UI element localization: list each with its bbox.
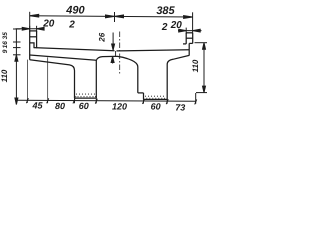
void crown left shoulder xyxy=(96,56,114,60)
extension x96.3 xyxy=(95,98,97,103)
right curb step xyxy=(189,42,193,44)
top dimension line 490/385 xyxy=(30,16,193,17)
left 20 dim line xyxy=(16,28,44,30)
left curb notch line xyxy=(30,43,34,48)
svg-text:35: 35 xyxy=(2,32,9,40)
svg-text:20: 20 xyxy=(42,18,55,29)
tick y54.8 xyxy=(13,54,21,56)
right 20 arrow a xyxy=(179,29,187,32)
extension x47.7 from soffit xyxy=(47,57,49,103)
left 20 arrow b xyxy=(37,27,45,30)
svg-text:60: 60 xyxy=(79,101,89,111)
mortar dots rib A xyxy=(75,94,96,98)
left 20 tick b xyxy=(36,26,38,32)
chain tick x143.5 xyxy=(143,99,145,104)
left 110 top arrow xyxy=(15,55,18,62)
svg-text:26: 26 xyxy=(97,32,106,42)
STRUCTURE xyxy=(30,31,193,100)
block B right face xyxy=(166,65,168,100)
left curb inner face xyxy=(36,31,38,48)
joint vertical xyxy=(115,51,117,56)
tick y42 xyxy=(13,41,21,43)
extension right end 385 xyxy=(192,12,194,33)
left curb inner line xyxy=(30,36,37,38)
chain tick x167.2 xyxy=(166,99,168,104)
26 dim at centre xyxy=(111,33,115,64)
svg-text:2: 2 xyxy=(161,22,168,33)
right 20 arrow b xyxy=(193,29,201,32)
extension x195.5 xyxy=(195,93,197,104)
block B left face xyxy=(143,93,145,100)
svg-text:73: 73 xyxy=(175,102,185,112)
right curb inner face xyxy=(185,33,187,44)
extension middle 490/385 xyxy=(114,12,116,22)
left outer face xyxy=(29,31,31,60)
chain tick x96.3 xyxy=(95,99,97,104)
arrowhead middle right 385 xyxy=(115,15,124,18)
arrowhead right 385 xyxy=(184,16,193,19)
bottom dimension chain xyxy=(16,57,196,104)
svg-text:110: 110 xyxy=(191,59,200,72)
right edge face xyxy=(188,43,190,55)
26 dim upper arrow xyxy=(112,44,115,50)
svg-text:120: 120 xyxy=(112,101,127,111)
chain tick x74 xyxy=(73,99,75,104)
extension x27.4 from haunch xyxy=(26,60,28,103)
svg-text:490: 490 xyxy=(65,5,85,17)
right 110 bottom extension xyxy=(196,92,207,94)
26 dim lower line xyxy=(112,57,114,64)
extension x166 xyxy=(166,99,168,103)
left 20 tick a xyxy=(29,26,31,32)
arrowhead middle left 490 xyxy=(106,15,115,18)
void crown right part xyxy=(115,56,138,93)
left vertical dimension line xyxy=(13,29,21,105)
right 110 bottom arrow xyxy=(203,86,206,93)
roadway top left slope xyxy=(34,48,115,51)
right curb inner line xyxy=(186,37,193,39)
right 110 top extension xyxy=(195,42,208,44)
chain tick x195.7 xyxy=(195,99,197,104)
svg-text:16: 16 xyxy=(2,41,9,49)
26 dim upper line xyxy=(112,33,114,51)
extension x143.5 xyxy=(143,99,145,103)
right 20 tick a xyxy=(185,28,187,34)
right curb top xyxy=(186,32,193,34)
roadway top right slope xyxy=(117,50,190,51)
extension x74.5 xyxy=(74,98,76,103)
svg-text:110: 110 xyxy=(0,69,9,82)
right curb stub xyxy=(183,43,186,45)
tick y47.6 xyxy=(13,47,21,49)
chain tick x47.7 xyxy=(47,98,49,103)
slab soffit left C1 xyxy=(30,55,97,60)
right 110 dim line xyxy=(203,43,205,93)
right shoulder into C1' xyxy=(167,55,189,64)
left haunch C2 into rib A face xyxy=(30,60,75,98)
right 110 top arrow xyxy=(203,43,206,50)
svg-text:80: 80 xyxy=(55,101,65,111)
void right ledge xyxy=(138,92,144,94)
rib A bottom xyxy=(75,97,97,99)
left 20 arrow a xyxy=(22,27,30,30)
right curb outer face xyxy=(192,33,194,44)
void left face xyxy=(95,60,97,98)
extension left end 490 xyxy=(29,12,31,31)
svg-text:385: 385 xyxy=(156,5,175,17)
tick y29 xyxy=(13,28,21,30)
left curb top xyxy=(30,30,37,32)
axis centreline dash-dot xyxy=(119,32,121,74)
svg-text:20: 20 xyxy=(170,20,183,31)
left 110 bottom arrow xyxy=(15,98,18,105)
svg-text:45: 45 xyxy=(31,101,43,111)
svg-text:9: 9 xyxy=(2,49,9,53)
svg-text:60: 60 xyxy=(151,102,161,112)
chain tick x27.4 xyxy=(26,98,28,103)
svg-text:2: 2 xyxy=(68,20,75,31)
right vertical dimension 110 xyxy=(195,43,208,93)
block B bottom xyxy=(144,98,168,100)
mortar dots block B xyxy=(145,96,165,99)
26 dim lower arrow xyxy=(111,57,114,63)
right 20 dim line xyxy=(178,30,202,32)
arrowhead left 490 xyxy=(30,14,39,17)
